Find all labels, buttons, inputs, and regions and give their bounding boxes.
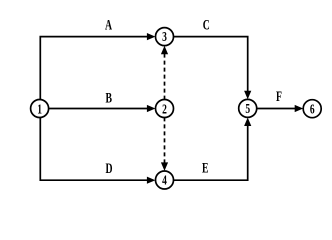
label A [105,16,113,33]
svg-text:1: 1 [37,100,42,116]
svg-text:4: 4 [162,172,167,188]
arrowhead into node 2 (B) [147,105,156,112]
wire activity D (node 1 down then right to node 4) [40,117,147,180]
wire activity E (node 4 right then up to node 5) [174,126,248,181]
arrowhead into node 4 (D) [147,177,156,184]
node 2 [156,100,174,118]
arrowhead into node 3 bottom (dummy) [161,46,168,55]
node 1 [31,100,49,118]
label B [106,89,113,106]
svg-text:2: 2 [162,100,167,116]
label C [203,16,210,33]
wire activity F (node 5 right to node 6) [257,108,296,110]
svg-text:A: A [105,16,113,33]
svg-text:E: E [202,159,209,176]
svg-text:3: 3 [162,28,167,44]
svg-text:F: F [276,88,282,105]
node 3 [156,28,174,46]
svg-text:D: D [105,160,112,177]
wire dummy dashed (node 2 down to node 4) [164,117,166,163]
arrowhead into node 5 top (C) [244,91,251,100]
label D [105,160,112,177]
arrowhead into node 5 bottom (E) [244,118,251,127]
wire dummy dashed (node 2 up to node 3) [164,54,166,100]
label F [276,88,282,105]
node 6 [303,100,321,118]
arrowhead into node 6 (F) [295,105,304,112]
node 4 [156,171,174,189]
svg-text:C: C [203,16,210,33]
svg-text:B: B [106,89,113,106]
svg-text:6: 6 [310,101,315,117]
node 5 [239,99,257,117]
wire activity A (node 1 up then right to node 3) [40,37,147,100]
label E [202,159,209,176]
wire activity B (node 1 right to node 2) [49,108,148,110]
arrowhead into node 4 top (dummy) [161,162,168,171]
svg-text:5: 5 [245,100,250,116]
wire activity C (node 3 right then down to node 5) [174,37,248,92]
arrowhead into node 3 (A) [147,33,156,40]
